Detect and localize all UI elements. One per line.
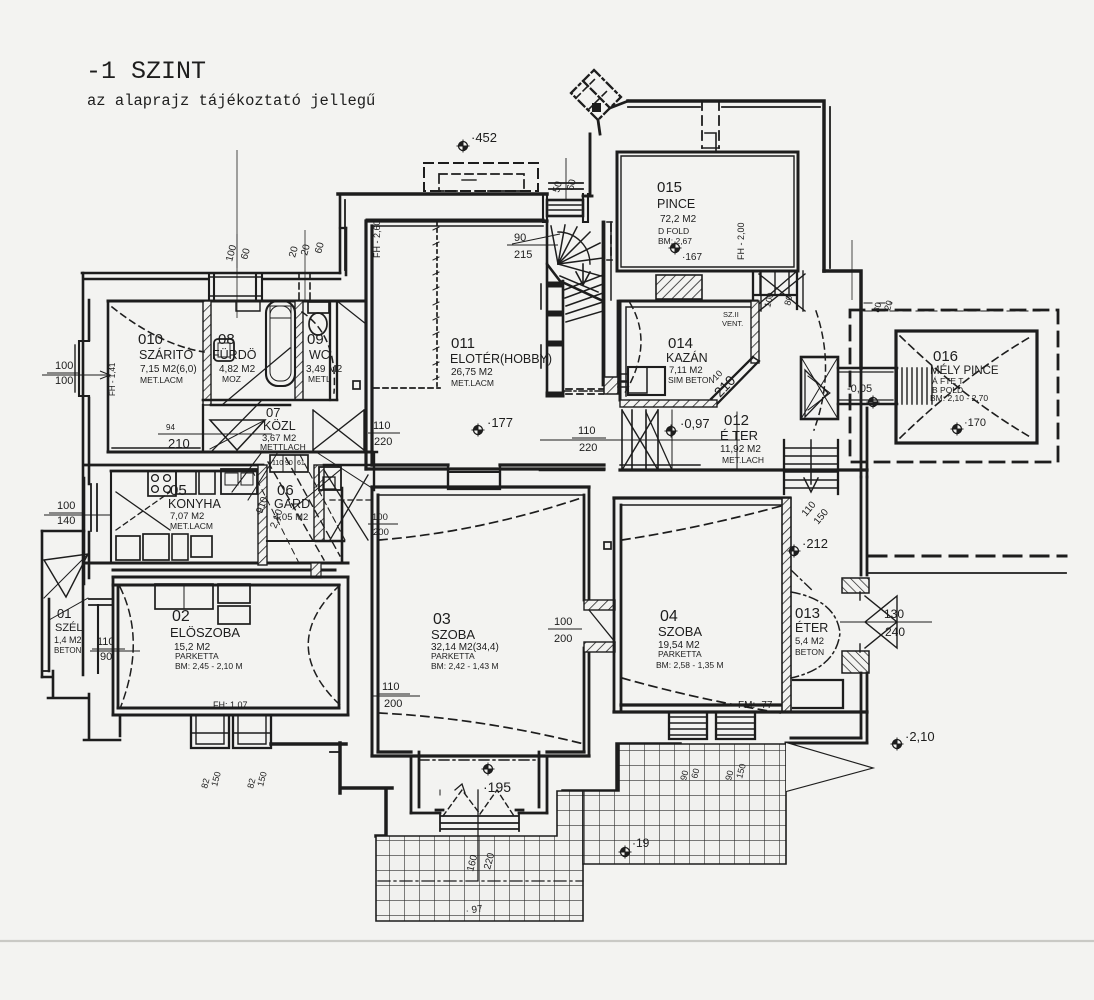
- door diag corridor top: [337, 301, 366, 324]
- svg-text:VENT.: VENT.: [722, 319, 743, 328]
- svg-text:·212: ·212: [802, 536, 828, 551]
- svg-text:FH: 1,07: FH: 1,07: [213, 700, 248, 710]
- kitchen left wall inner: [110, 471, 112, 563]
- room 011 bottom wall: [366, 465, 604, 469]
- svg-text:-1 SZINT: -1 SZINT: [86, 57, 206, 86]
- room 03 walls: [372, 485, 589, 488]
- svg-text:220: 220: [374, 436, 392, 448]
- svg-text:014: 014: [668, 335, 693, 352]
- dashed duct rectangle above top wall: [424, 163, 538, 191]
- east wall lower + bottom: [861, 673, 867, 743]
- svg-text:MET.LACM: MET.LACM: [140, 375, 183, 385]
- svg-text:220: 220: [579, 442, 597, 454]
- stair dashes through 06 (upper flight): [268, 462, 324, 560]
- svg-text:·177: ·177: [487, 415, 513, 430]
- terrace retaining wall left steps: [271, 743, 392, 836]
- svg-text:SZ.II: SZ.II: [723, 310, 739, 319]
- 015 flue dashed opening in top wall: [702, 101, 719, 148]
- level marker +195: [482, 763, 495, 776]
- terrace joint dash-dot: [378, 880, 583, 882]
- level marker +19: [619, 846, 632, 859]
- svg-text:100: 100: [57, 500, 75, 512]
- svg-text:ELOTÉR(HOBBY): ELOTÉR(HOBBY): [450, 351, 552, 366]
- svg-text:ELÖSZOBA: ELÖSZOBA: [170, 625, 240, 640]
- 03 bay door swings: [443, 790, 514, 816]
- white arrow overlay keeps tiles clear: [786, 743, 871, 791]
- 014 diagonal cut wall: [711, 357, 759, 404]
- svg-text:BM: 2,42 - 1,43 M: BM: 2,42 - 1,43 M: [431, 661, 499, 671]
- svg-text:94: 94: [166, 423, 175, 432]
- diag door swing into 03 area: [313, 450, 372, 488]
- room 02 walls: [113, 577, 348, 585]
- svg-text:010: 010: [138, 331, 163, 348]
- svg-text:02: 02: [172, 608, 190, 625]
- 013 dash-dot boundary: [791, 592, 840, 678]
- svg-text:MOZ: MOZ: [222, 374, 241, 384]
- 03 vault arcs: [379, 497, 584, 540]
- svg-text:PINCE: PINCE: [657, 197, 695, 211]
- svg-text:130: 130: [884, 607, 904, 621]
- 03 top wall upper line + recess: [540, 469, 604, 472]
- svg-text:110: 110: [382, 681, 400, 693]
- kitchen door diag: [116, 492, 170, 530]
- svg-text:140: 140: [57, 515, 75, 527]
- 015 left wall dashed niche: [610, 224, 612, 258]
- 016 dashed outer boundary: [850, 310, 1058, 462]
- svg-text:FH - 2,00: FH - 2,00: [736, 222, 746, 260]
- entry door threshold: [547, 200, 583, 216]
- svg-text:·2,10: ·2,10: [905, 729, 935, 744]
- level marker -0,05: [867, 396, 880, 409]
- room 01 left outer wall: [42, 531, 49, 677]
- level marker +0,97: [665, 425, 678, 438]
- svg-text:KONYHA: KONYHA: [168, 497, 221, 511]
- rotated dims: bath window 100/60: [108, 178, 895, 873]
- niche box right of 06: [319, 467, 341, 490]
- hatch stub at 02 top wall: [311, 563, 321, 578]
- dash-dot under stair to 012: [563, 390, 604, 392]
- svg-text:100: 100: [372, 512, 388, 523]
- winder stair outline: [547, 222, 603, 301]
- east wall mid: [861, 368, 867, 477]
- svg-text:·167: ·167: [682, 252, 702, 263]
- room 06 right hatched wall: [314, 465, 324, 541]
- svg-text:PARKETTA: PARKETTA: [658, 649, 702, 659]
- washbasin 08: [214, 339, 234, 361]
- door diag 08: [222, 348, 290, 405]
- svg-text:METL: METL: [308, 374, 331, 384]
- small shelf 08 top: [236, 301, 260, 311]
- 03/04 door hatched jambs: [584, 600, 615, 610]
- svg-text:WC: WC: [309, 348, 330, 362]
- svg-text:110: 110: [373, 420, 391, 432]
- svg-text:PARKETTA: PARKETTA: [175, 651, 219, 661]
- outer wall top-left horizontal double: [82, 273, 340, 279]
- svg-text:KÖZL: KÖZL: [263, 419, 296, 433]
- svg-text:·452: ·452: [471, 130, 497, 145]
- entry outside landing lines: [549, 183, 583, 189]
- svg-text:FH - 1,41: FH - 1,41: [108, 362, 117, 396]
- wall segment right of entry door: [583, 195, 592, 198]
- vent square right of 09: [353, 381, 360, 389]
- 016 dashed X arcs: [900, 336, 1032, 438]
- room 01 door triangles: [44, 554, 88, 597]
- svg-text:SIM BETON: SIM BETON: [668, 375, 715, 385]
- outer wall rise to top wall: [340, 194, 346, 275]
- svg-text:100: 100: [55, 375, 73, 387]
- left wing rooms left wall x=108: [107, 301, 110, 452]
- svg-text:D FOLD: D FOLD: [658, 226, 689, 236]
- dashed dims to 016 corridor: [864, 303, 1040, 311]
- east outer wall upper: [860, 301, 863, 368]
- level marker +212: [788, 545, 801, 558]
- vestibule door triangles: [805, 370, 828, 417]
- top wall of entry block y=196: [338, 192, 547, 196]
- svg-text:METTLACH: METTLACH: [260, 442, 306, 452]
- level marker +210: [891, 738, 904, 751]
- corridor walls to 016: [838, 368, 897, 404]
- stairs to 016: [896, 368, 898, 404]
- 014 bottom hatched wall: [620, 400, 717, 407]
- svg-text:MET.LACH: MET.LACH: [722, 455, 764, 465]
- svg-text:·19: ·19: [632, 836, 650, 850]
- room 011 right wall (to center stair): [604, 222, 618, 377]
- bottom-left stepped outer wall: [42, 671, 120, 740]
- svg-text:SZÉL: SZÉL: [55, 621, 83, 634]
- svg-text:09: 09: [307, 331, 324, 348]
- 04 windows below: [669, 712, 707, 739]
- level marker +170: [951, 423, 964, 436]
- bottom wall of 08/09 (corridor 07 top): [203, 400, 337, 405]
- svg-text:GARD: GARD: [274, 497, 310, 511]
- 011 left wall jog at y452: [366, 452, 377, 490]
- bathtub: [266, 301, 295, 386]
- vent square right of 03: [604, 542, 611, 549]
- svg-text:BM: 2,58 - 1,35 M: BM: 2,58 - 1,35 M: [656, 660, 724, 670]
- svg-text:26,75 M2: 26,75 M2: [451, 367, 493, 378]
- svg-text:100: 100: [554, 616, 572, 628]
- arc dash entry vestibule: [814, 311, 826, 430]
- door X right of 014 top: [759, 274, 805, 311]
- svg-text:110: 110: [97, 636, 115, 648]
- svg-text:·195: ·195: [483, 779, 511, 795]
- svg-text:BM: 2,10 - 2,70: BM: 2,10 - 2,70: [930, 393, 988, 403]
- bay dim line down: [477, 790, 479, 880]
- winder radial treads: [551, 225, 603, 292]
- svg-text:016: 016: [933, 348, 958, 365]
- svg-text:az alaprajz tájékoztató jelleg: az alaprajz tájékoztató jellegű: [87, 92, 375, 110]
- 02/03 door arc: [308, 585, 341, 706]
- kitchen bottom wall (05/02): [84, 563, 348, 570]
- 02 windows below: [191, 715, 229, 748]
- niche wall between 011 and stair: [547, 264, 563, 396]
- big arrow (ramp): [786, 743, 871, 791]
- kitchen 05 left wall lower + window: [91, 484, 97, 531]
- dashed opening band corridor to 03: [330, 499, 370, 501]
- svg-text:200: 200: [373, 527, 389, 538]
- window bump on left outer wall (010): [79, 341, 89, 396]
- svg-text:SZOBA: SZOBA: [658, 624, 702, 639]
- 04 vault arcs: [622, 506, 781, 540]
- hatch on 011 right wall bottom: [604, 377, 618, 394]
- svg-text:11,92 M2: 11,92 M2: [720, 444, 761, 455]
- room 04 walls: [614, 496, 790, 499]
- chimney rotated square: [571, 70, 628, 134]
- svg-text:200: 200: [554, 633, 572, 645]
- svg-text:012: 012: [724, 412, 749, 429]
- svg-text:100: 100: [55, 360, 73, 372]
- door arc 010: [112, 307, 204, 352]
- svg-text:90: 90: [285, 460, 293, 467]
- svg-text:É TER: É TER: [720, 428, 758, 443]
- small label box above 06: [270, 455, 308, 472]
- wall below 012 (y=470): [620, 468, 867, 471]
- right terrace tiles: [583, 744, 786, 864]
- svg-text:011: 011: [451, 335, 475, 352]
- svg-text:KAZÁN: KAZÁN: [666, 350, 708, 365]
- room 016: [896, 331, 1037, 443]
- level marker +177: [472, 424, 485, 437]
- door leaves triangles bottom of 07: [210, 420, 265, 450]
- dash-dot line across 03 bottom opening: [419, 759, 539, 761]
- room 015 PINCE outer walls: [628, 101, 824, 271]
- straight flight treads below winder: [564, 275, 603, 322]
- outer wall left vertical double: [83, 273, 89, 675]
- 011 interior dashed fold line vertical: [436, 222, 438, 388]
- center stair treads: [622, 410, 658, 470]
- bath window in top wall: [209, 273, 262, 301]
- svg-text:215: 215: [514, 249, 532, 261]
- svg-text:1,4 M2: 1,4 M2: [54, 635, 82, 645]
- 03 bay walls: [411, 752, 547, 813]
- 03 bay window/door opening: [440, 813, 519, 831]
- hatched wall 010/08: [203, 301, 211, 405]
- svg-text:7,15 M2(6,0): 7,15 M2(6,0): [140, 364, 197, 375]
- svg-text:·170: ·170: [964, 417, 986, 429]
- 014 door arc: [623, 303, 641, 396]
- svg-text:BM: 2,45 - 2,10 M: BM: 2,45 - 2,10 M: [175, 661, 243, 671]
- fence dashed line to right: [869, 555, 1066, 558]
- svg-text:210: 210: [168, 436, 190, 451]
- hatched wall 08/09: [295, 301, 303, 400]
- wall stub right of 06: [316, 465, 372, 563]
- svg-text:08: 08: [218, 331, 235, 348]
- central terrace tiles: [376, 791, 583, 921]
- extra stair dashes corridor: [300, 455, 345, 540]
- svg-text:07: 07: [266, 405, 280, 420]
- svg-text:-0,05: -0,05: [847, 383, 872, 395]
- room 01/02 dividing wall: [97, 605, 99, 673]
- room 014 KAZAN walls: [620, 301, 757, 400]
- terrace retaining right steps: [563, 744, 680, 791]
- door arrows 013 exterior: [865, 596, 897, 648]
- room 010 bottom wall: [108, 451, 262, 454]
- hatched block door jamb upper: [842, 578, 869, 593]
- kitchen lower counters: [116, 536, 140, 560]
- vestibule room: [801, 357, 838, 419]
- svg-text:ÉTER: ÉTER: [795, 620, 828, 635]
- stair right guide line: [672, 410, 737, 470]
- room 011 walls: [366, 221, 547, 469]
- svg-text:SZÁRITÓ: SZÁRITÓ: [139, 347, 193, 362]
- 015 bottom wall continues right: [824, 271, 861, 368]
- kitchen counters top: [148, 471, 176, 496]
- 02 furniture: [155, 584, 213, 609]
- svg-text:BETON: BETON: [54, 646, 82, 655]
- 06 bottom wall: [267, 540, 314, 542]
- svg-text:PARKETTA: PARKETTA: [431, 651, 475, 661]
- kitchen 05 top wall: [84, 465, 263, 471]
- 04 right hatched wall: [782, 498, 791, 712]
- svg-text:FM: -77: FM: -77: [738, 700, 773, 711]
- under-stair dashed opening: [566, 389, 603, 394]
- dim vertical lines: [236, 234, 238, 268]
- winder arc: [558, 232, 590, 264]
- vent block right of 015 bottom (door to outside): [753, 271, 797, 309]
- svg-text:BETON: BETON: [795, 647, 824, 657]
- faint scan line bottom: [0, 940, 1094, 942]
- 04 bottom wall: [614, 705, 867, 712]
- diag X right of 06: [324, 470, 368, 540]
- 02 door arc left: [120, 587, 133, 706]
- svg-text:MET.LACM: MET.LACM: [170, 521, 213, 531]
- svg-text:110: 110: [272, 460, 283, 467]
- 014 right hatched wall: [751, 301, 759, 363]
- svg-text:5,4 M2: 5,4 M2: [795, 636, 824, 647]
- svg-text:MET.LACM: MET.LACM: [451, 378, 494, 388]
- svg-text:110: 110: [578, 425, 596, 437]
- svg-text:03: 03: [433, 611, 451, 628]
- stair down arrow: [576, 264, 590, 285]
- 03 door to 07 hatch + arc: [345, 452, 372, 505]
- hatched wall block below 015 (between 015 and 014): [656, 275, 702, 299]
- level marker +167: [669, 242, 682, 255]
- svg-text:013: 013: [795, 605, 820, 622]
- stair above 04 (to right wing): [784, 440, 838, 494]
- small room under 013: [793, 680, 843, 708]
- svg-text:200: 200: [384, 698, 402, 710]
- svg-text:FH - 2,60: FH - 2,60: [372, 220, 382, 258]
- svg-text:SZOBA: SZOBA: [431, 627, 475, 642]
- room 015 inner rectangle: [617, 152, 798, 271]
- east wall at 013 level: [861, 477, 867, 575]
- svg-text:FÜRDÖ: FÜRDÖ: [212, 348, 257, 362]
- wall right of 09: [330, 301, 337, 400]
- boiler: [628, 367, 665, 395]
- svg-text:·0,97: ·0,97: [680, 416, 710, 431]
- svg-text:015: 015: [657, 179, 682, 196]
- left wing room top wall (inner) y=301: [108, 300, 366, 303]
- wall down from chimney to entry: [589, 134, 592, 196]
- dashed flue opening in top-left wall: [299, 273, 310, 301]
- svg-text:72,2 M2: 72,2 M2: [660, 214, 697, 225]
- room 011 bottom niche: [448, 465, 500, 489]
- svg-text:90: 90: [100, 651, 112, 663]
- corridor 07 bottom walls: [262, 451, 372, 454]
- door arc 09: [302, 312, 334, 393]
- X door right of 07: [313, 410, 364, 450]
- svg-text:61: 61: [297, 460, 305, 467]
- svg-text:01: 01: [57, 606, 71, 621]
- 011 interior dashed line horizontal: [374, 387, 440, 389]
- hatched wall 05/06: [258, 465, 267, 565]
- hatched block door jamb lower: [842, 651, 869, 673]
- svg-text:04: 04: [660, 608, 678, 625]
- svg-text:240: 240: [885, 625, 905, 639]
- level marker +452: [457, 140, 470, 153]
- door threshold right of 011 wall: [618, 382, 628, 387]
- wc cistern + bowl 09: [308, 302, 329, 313]
